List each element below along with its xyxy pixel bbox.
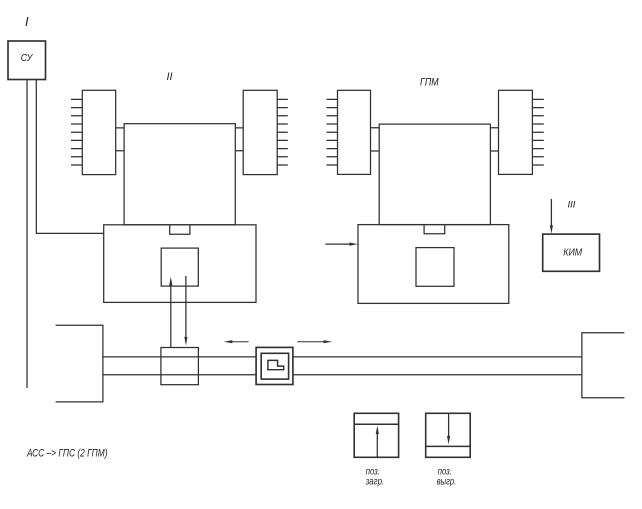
svg-text:III: III xyxy=(568,200,576,211)
legend loading arrow up xyxy=(376,433,378,457)
machine ГПМ left neck xyxy=(371,128,380,151)
arrow up from conveyor to pallet xyxy=(170,284,172,348)
machine ГПМ pallet square xyxy=(416,248,454,287)
svg-text:I: I xyxy=(25,14,29,29)
robocar outer box xyxy=(256,347,293,384)
svg-text:ГПМ: ГПМ xyxy=(420,77,439,89)
arrow into ГПМ station xyxy=(325,243,351,245)
machine ГПМ pallet station xyxy=(358,225,509,304)
machine II pallet station xyxy=(104,225,256,303)
conveyor transfer square under machine II xyxy=(161,348,199,385)
conveyor arrow right xyxy=(297,341,325,343)
machine II right neck xyxy=(235,128,243,151)
svg-text:выгр.: выгр. xyxy=(437,475,457,487)
conveyor arrow left xyxy=(231,341,249,343)
machine ГПМ right tool magazine xyxy=(499,90,533,174)
machine II right magazine teeth xyxy=(277,99,288,165)
conveyor bottom rail xyxy=(103,374,582,376)
robocar inner box xyxy=(261,353,288,379)
machine ГПМ left magazine teeth xyxy=(327,99,338,165)
conveyor left end bracket xyxy=(56,325,103,402)
svg-text:АСС –> ГПС (2 ГПМ): АСС –> ГПС (2 ГПМ) xyxy=(26,447,107,459)
wire from СУ down (dangling) xyxy=(26,80,28,389)
conveyor right end bracket xyxy=(582,333,625,398)
wire from СУ to machine II station xyxy=(36,80,103,234)
measuring machine КИМ xyxy=(543,234,600,271)
svg-text:II: II xyxy=(167,71,173,83)
conveyor top rail xyxy=(103,356,582,358)
legend unloading arrow down xyxy=(448,413,450,437)
machine ГПМ station notch xyxy=(424,225,445,234)
robocar step symbol xyxy=(268,360,284,369)
machine II left magazine teeth xyxy=(71,99,82,165)
legend unloading box xyxy=(426,413,471,457)
machine II pallet square xyxy=(161,248,198,286)
machine II left neck xyxy=(116,128,124,151)
machine II station notch xyxy=(170,225,190,235)
arrow down from pallet to conveyor xyxy=(185,276,187,338)
svg-text:КИМ: КИМ xyxy=(563,247,582,259)
legend loading box xyxy=(354,413,398,457)
machine ГПМ left tool magazine xyxy=(338,90,371,174)
machine ГПМ body xyxy=(379,124,490,225)
svg-text:СУ: СУ xyxy=(21,52,34,64)
legend loading divider xyxy=(354,423,398,425)
machine II right tool magazine xyxy=(243,90,277,174)
control unit СУ xyxy=(8,41,46,80)
machine II body xyxy=(124,124,235,225)
arrow down into КИМ xyxy=(550,199,552,227)
machine II left tool magazine xyxy=(82,90,115,174)
svg-text:загр.: загр. xyxy=(365,475,384,487)
legend unloading divider xyxy=(426,445,471,447)
machine ГПМ right magazine teeth xyxy=(532,99,543,165)
machine ГПМ right neck xyxy=(490,128,498,151)
